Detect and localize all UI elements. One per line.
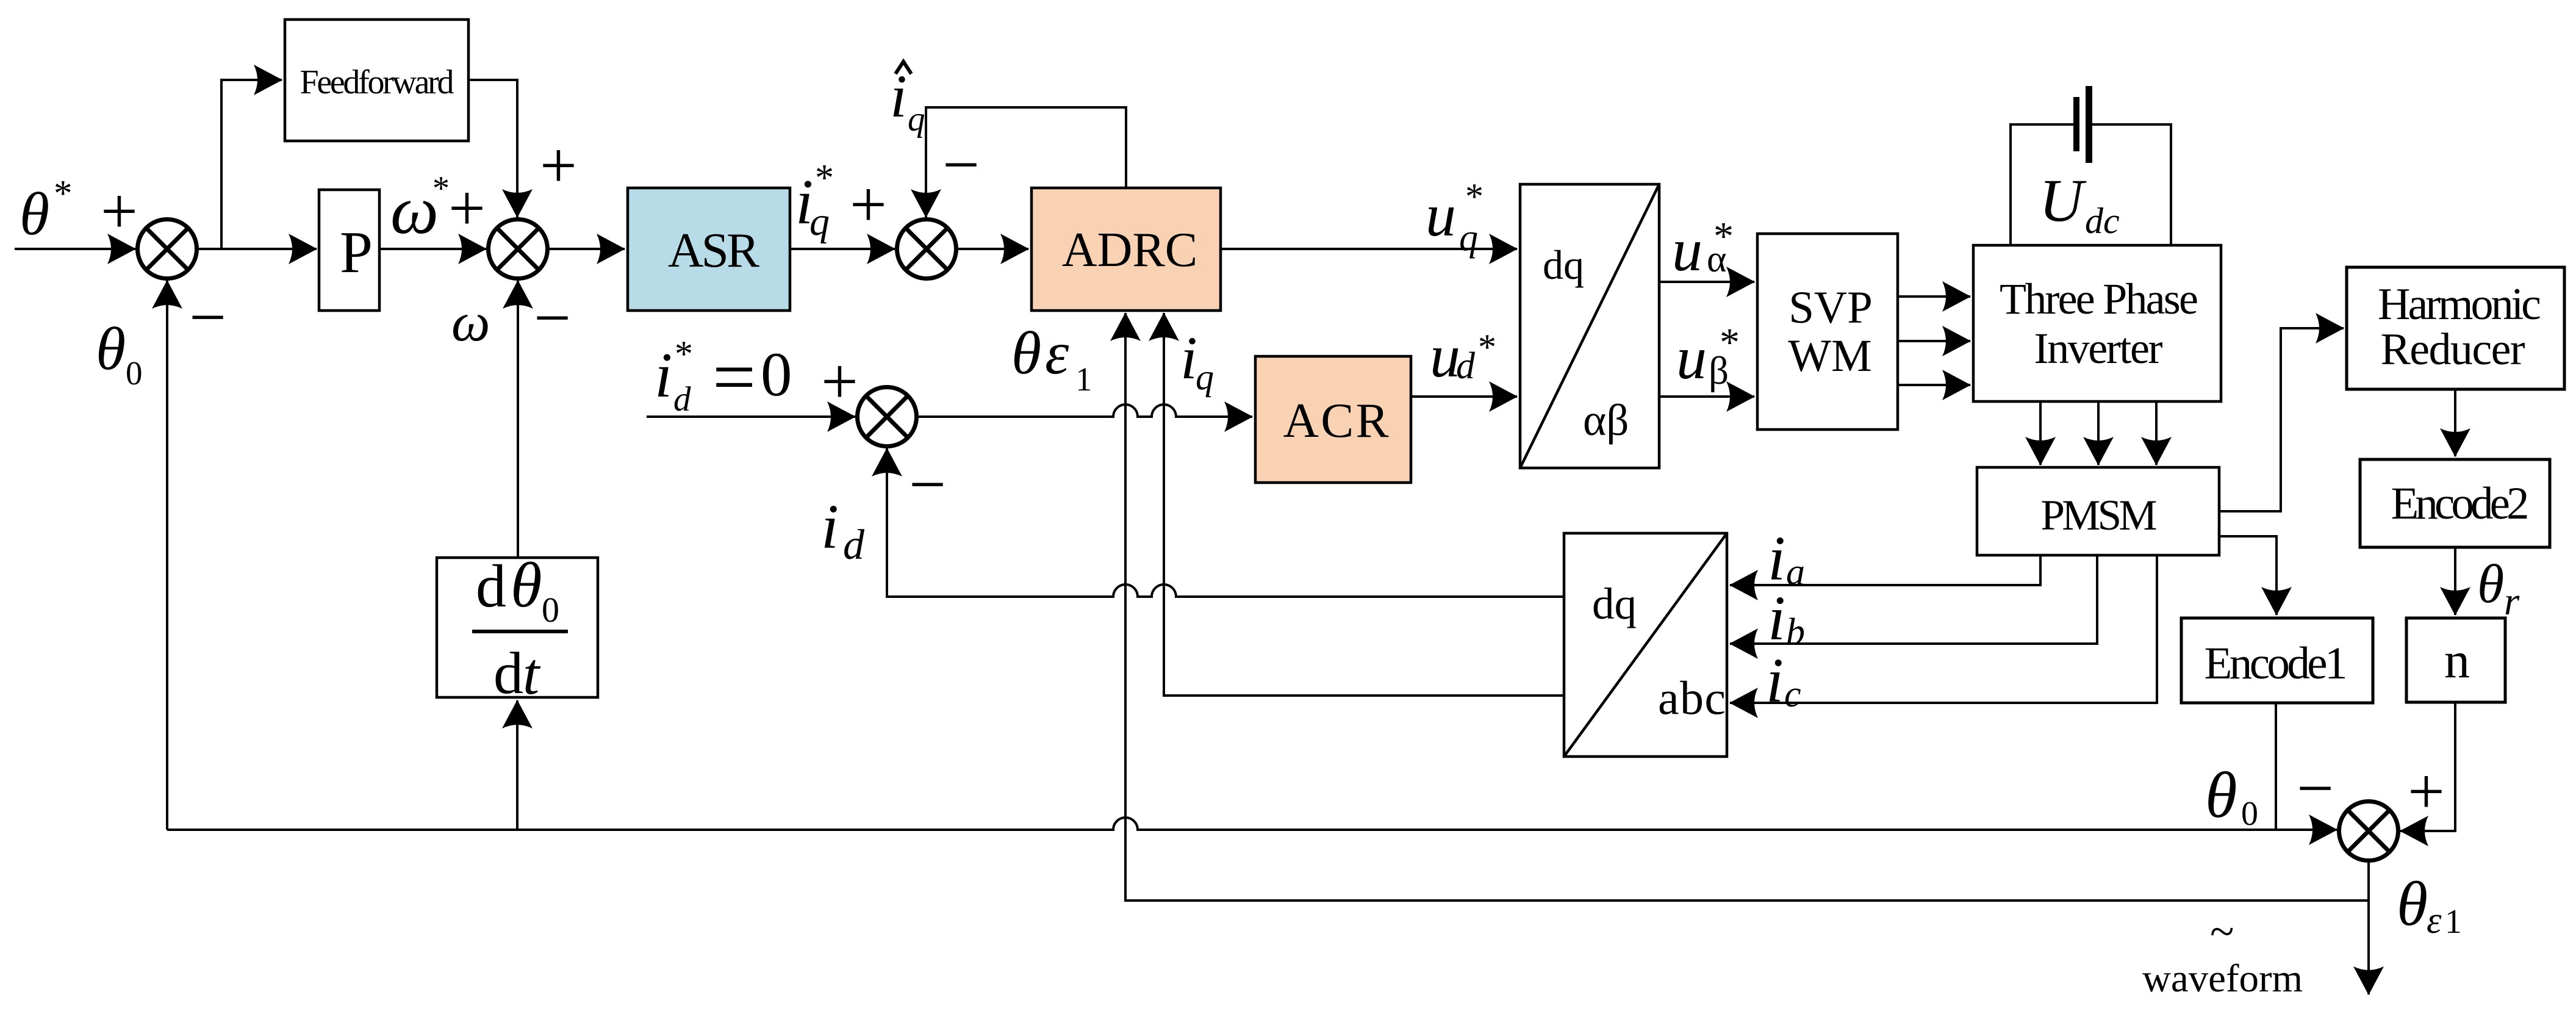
svg-text:P: P [340, 220, 373, 285]
label dtheta0 numerator [476, 549, 559, 630]
svg-text:Inverter: Inverter [2034, 324, 2163, 373]
svg-text:*: * [1713, 214, 1734, 259]
label theta0 at S5 [2205, 760, 2258, 833]
svg-text:q: q [809, 200, 830, 244]
svg-text:i: i [1768, 583, 1785, 653]
wire inverter to PMSM phase a [2039, 401, 2042, 465]
label hat of i_q hat [895, 62, 911, 74]
block Harmonic Reducer [2347, 267, 2564, 389]
svg-text:ACR: ACR [1283, 393, 1389, 448]
wire theta0 feedback to S1 [166, 281, 168, 830]
wire branch up to Feedforward [221, 80, 282, 249]
svg-text:q: q [1196, 357, 1214, 397]
svg-text:r: r [2504, 580, 2520, 624]
battery Udc plate long [2086, 86, 2092, 163]
wire ADRC to dq/ab (u_q*) [1221, 248, 1517, 250]
svg-text:θ: θ [2397, 869, 2428, 939]
svg-text:1: 1 [1075, 361, 1092, 398]
wire S3 to ACR [919, 405, 1252, 417]
svg-text:−: − [189, 281, 226, 354]
svg-text:0: 0 [126, 354, 143, 392]
label Three Phase Inverter [2000, 275, 2198, 373]
svg-text:Three Phase: Three Phase [2000, 275, 2198, 323]
wire n output to S5 [2400, 702, 2455, 831]
summing junction S5 [2339, 802, 2398, 861]
svg-text:*: * [432, 170, 450, 207]
svg-text:=: = [712, 335, 756, 420]
svg-text:PMSM: PMSM [2041, 492, 2158, 539]
svg-text:+: + [448, 172, 486, 245]
svg-text:0: 0 [542, 590, 559, 630]
svg-text:ω: ω [451, 292, 490, 353]
svg-text:θ: θ [20, 180, 49, 248]
svg-text:d: d [476, 552, 506, 620]
svg-text:−: − [534, 282, 571, 354]
wire Harmonic Reducer to Encode2 [2454, 389, 2456, 456]
wire Udc right branch [2092, 124, 2171, 245]
svg-text:t: t [523, 641, 541, 707]
wire S2 to ASR [550, 248, 625, 250]
svg-text:θ: θ [1011, 319, 1041, 387]
block Three Phase Inverter [1973, 245, 2221, 401]
svg-text:θ: θ [2477, 554, 2504, 614]
svg-text:θ: θ [2205, 760, 2237, 832]
label Harmonic Reducer [2378, 279, 2541, 375]
block ASR [628, 188, 790, 311]
label theta_e1 output [2397, 869, 2462, 941]
wire omega feedback from d0/dt to S2 [517, 281, 519, 558]
svg-text:d: d [673, 380, 691, 419]
svg-text:Reducer: Reducer [2381, 325, 2525, 375]
svg-text:−: − [909, 448, 946, 521]
label i_q* after ASR [795, 157, 834, 244]
label omega* after P [390, 170, 450, 248]
block PMSM [1977, 467, 2219, 555]
wire inverter to PMSM phase b [2097, 401, 2100, 465]
label i_b [1768, 583, 1805, 653]
wire inverter to PMSM phase c [2155, 401, 2158, 465]
battery Udc plate short [2073, 97, 2079, 151]
svg-text:ASR: ASR [668, 223, 759, 278]
svg-text:q: q [908, 100, 925, 138]
wire i_q hat feedback from ADRC top to S4 [926, 107, 1126, 217]
svg-text:ε: ε [1045, 319, 1069, 387]
wire i_q feedback to ADRC [1164, 313, 1564, 696]
svg-text:*: * [815, 157, 834, 199]
wire Encode1 output theta0 [2275, 703, 2277, 830]
svg-text:Encode2: Encode2 [2391, 478, 2530, 529]
svg-text:u: u [1676, 324, 1707, 392]
svg-text:i: i [655, 339, 672, 411]
svg-text:+: + [850, 168, 887, 241]
wire i_a measurement [1730, 555, 2040, 585]
label SVP WM [1788, 282, 1873, 381]
svg-text:θ: θ [96, 315, 126, 383]
wire ASR to S4 [790, 248, 895, 250]
svg-text:d: d [1456, 345, 1476, 387]
svg-text:i: i [821, 492, 839, 562]
wire theta0 long line to S5 [167, 818, 2337, 830]
svg-text:+: + [821, 345, 858, 418]
svg-text:*: * [54, 173, 73, 214]
label theta_r [2477, 554, 2520, 624]
svg-text:q: q [1459, 217, 1478, 259]
svg-text:+: + [101, 175, 138, 248]
svg-text:ADRC: ADRC [1062, 223, 1197, 277]
svg-text:1: 1 [2445, 903, 2462, 941]
svg-text:*: * [675, 334, 693, 374]
svg-text:d: d [843, 522, 865, 569]
block abc/dq transform [1564, 533, 1727, 757]
label theta* [20, 173, 73, 248]
svg-text:*: * [1478, 327, 1496, 367]
wire Udc left branch [2011, 124, 2073, 245]
svg-text:dq: dq [1543, 242, 1584, 288]
svg-text:*: * [1720, 320, 1740, 365]
wire u_alpha* [1659, 281, 1754, 283]
svg-text:i: i [1180, 324, 1197, 392]
svg-text:ω: ω [390, 173, 439, 248]
svg-text:θ: θ [511, 549, 542, 620]
svg-text:n: n [2444, 632, 2470, 689]
svg-text:c: c [1784, 674, 1801, 715]
wire theta* input [15, 248, 135, 250]
block dq/alphabeta transform [1520, 184, 1659, 468]
wire S1 to P [199, 248, 317, 250]
label i_q hat feedback [890, 62, 925, 138]
block ACR [1255, 356, 1411, 483]
svg-text:waveform: waveform [2142, 957, 2303, 1001]
label u_beta* [1676, 320, 1740, 393]
label i_d*=0 [655, 334, 792, 420]
svg-text:u: u [1672, 216, 1702, 284]
label i_q at ADRC input [1180, 324, 1214, 397]
wire theta_e1 output down [2367, 863, 2370, 994]
svg-text:αβ: αβ [1583, 395, 1629, 445]
label u_q* [1426, 176, 1484, 259]
fraction bar in dtheta0/dt [472, 630, 568, 633]
block Feedforward [285, 20, 468, 141]
wire P to S2 [379, 248, 486, 250]
wire SVPWM to inverter 3 [1898, 384, 1970, 386]
svg-text:Encode1: Encode1 [2205, 638, 2348, 689]
svg-text:abc: abc [1658, 671, 1726, 724]
label U_dc [2039, 167, 2120, 241]
svg-text:u: u [1426, 181, 1456, 249]
label i_d feedback [821, 492, 865, 569]
svg-text:Feedforward: Feedforward [300, 63, 454, 101]
svg-text:d: d [493, 641, 523, 707]
svg-text:+: + [2408, 755, 2445, 828]
wire Feedforward output to S2 [468, 80, 517, 217]
block n [2406, 618, 2505, 702]
svg-text:i: i [890, 62, 907, 130]
wire i_d feedback to S3 [887, 448, 1564, 597]
svg-text:WM: WM [1788, 331, 1871, 381]
wire theta_e1 feedback to ADRC [1125, 313, 2369, 901]
wire PMSM to Encode1 [2219, 536, 2276, 615]
summing junction S3 [858, 387, 917, 447]
svg-text:dc: dc [2085, 201, 2120, 241]
block Encode2 [2360, 459, 2550, 547]
svg-text:~: ~ [2210, 907, 2234, 956]
svg-text:−: − [2297, 752, 2334, 825]
wire PMSM to Harmonic Reducer [2219, 328, 2344, 511]
wire SVPWM to inverter 1 [1898, 295, 1970, 298]
label i_c [1766, 645, 1801, 716]
wire i_b measurement [1730, 555, 2097, 644]
svg-text:SVP: SVP [1788, 282, 1873, 333]
svg-text:b: b [1786, 611, 1805, 653]
svg-text:Harmonic: Harmonic [2378, 279, 2541, 329]
svg-text:a: a [1786, 552, 1805, 593]
block Encode1 [2181, 618, 2373, 703]
label u_alpha* [1672, 214, 1734, 284]
svg-text:dq: dq [1592, 579, 1637, 628]
svg-text:*: * [1465, 176, 1484, 217]
block dtheta0/dt [437, 558, 598, 697]
wire Encode2 to n (theta_r) [2454, 547, 2456, 615]
block SVPWM [1757, 234, 1898, 430]
svg-text:−: − [942, 129, 980, 201]
block P [319, 190, 379, 311]
summing junction S4 [897, 220, 956, 279]
wire SVPWM to inverter 2 [1898, 340, 1970, 342]
svg-text:0: 0 [2241, 795, 2258, 833]
svg-text:0: 0 [761, 340, 792, 409]
label dt denominator [493, 641, 541, 707]
label theta_e1 at ADRC input [1011, 319, 1092, 398]
svg-text:i: i [1766, 645, 1784, 716]
label theta0 at S1 [96, 315, 143, 392]
svg-text:+: + [540, 129, 577, 202]
wire u_beta* [1659, 395, 1754, 398]
wire i_c measurement [1730, 555, 2157, 703]
summing junction S2 [489, 220, 548, 279]
label u_d* [1430, 322, 1496, 390]
block ADRC [1031, 188, 1221, 311]
svg-text:U: U [2039, 167, 2087, 234]
label i_a [1768, 523, 1805, 594]
wire i_d*=0 input [647, 415, 855, 418]
summing junction S1 [138, 220, 197, 279]
wire S4 to ADRC [958, 248, 1028, 250]
svg-text:ε: ε [2427, 900, 2442, 941]
wire theta0 up into dtheta0/dt [516, 700, 518, 830]
wire ACR to dq/ab (u_d*) [1411, 395, 1517, 398]
